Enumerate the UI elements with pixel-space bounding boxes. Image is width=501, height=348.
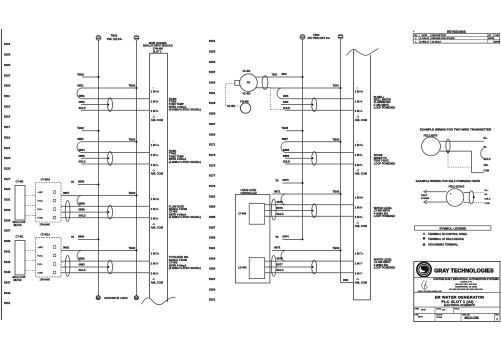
svg-text:COM: COM — [484, 170, 489, 172]
svg-text:3-FEB-07: 3-FEB-07 — [420, 42, 430, 44]
svg-text:0857: 0857 — [63, 191, 70, 195]
svg-text:8113: 8113 — [4, 104, 11, 108]
svg-text:DWN: DWN — [415, 308, 420, 310]
svg-text:0859: 0859 — [79, 208, 86, 212]
svg-text:TB03: TB03 — [281, 126, 288, 130]
svg-text:8159: 8159 — [209, 81, 216, 85]
svg-text:8013-C08: 8013-C08 — [465, 316, 479, 320]
svg-text:TB: TB — [275, 237, 278, 239]
svg-text:8195: 8195 — [209, 267, 216, 271]
svg-text:0877: 0877 — [277, 263, 284, 267]
svg-text:8119: 8119 — [4, 135, 11, 139]
svg-text:8153: 8153 — [209, 50, 216, 54]
svg-text:METER: METER — [14, 280, 22, 282]
svg-text:CT-451: CT-451 — [16, 235, 25, 238]
svg-text:TB: TB — [71, 237, 74, 239]
svg-text:EXAMPLE WIRING FOR TWO-WIRE TR: EXAMPLE WIRING FOR TWO-WIRE TRANSMITTER — [420, 128, 492, 132]
svg-text:8107: 8107 — [4, 73, 11, 77]
svg-text:8137: 8137 — [4, 229, 11, 233]
svg-text:MPW: MPW — [488, 38, 493, 40]
svg-text:0858: 0858 — [79, 202, 86, 206]
svg-text:8177: 8177 — [209, 174, 216, 178]
svg-text:8123: 8123 — [4, 156, 11, 160]
svg-text:8201: 8201 — [209, 298, 216, 302]
svg-text:8155: 8155 — [209, 60, 216, 64]
svg-text:0872: 0872 — [277, 200, 284, 204]
svg-text:8183: 8183 — [209, 205, 216, 209]
svg-text:0869: 0869 — [343, 280, 349, 282]
svg-text:8173: 8173 — [209, 153, 216, 157]
svg-text:TB02: TB02 — [77, 126, 84, 130]
svg-text:ELECTRICAL SCHEMATIC: ELECTRICAL SCHEMATIC — [444, 304, 475, 307]
svg-text:8175: 8175 — [209, 163, 216, 167]
svg-text:8163: 8163 — [209, 101, 216, 105]
svg-text:0851: 0851 — [77, 84, 84, 88]
svg-text:TB02: TB02 — [129, 84, 136, 88]
svg-text:8149: 8149 — [4, 291, 11, 295]
svg-text:8161: 8161 — [209, 91, 216, 95]
svg-text:+15V: +15V — [38, 247, 44, 249]
svg-text:8193: 8193 — [209, 256, 216, 260]
svg-text:IN -: IN - — [484, 147, 488, 149]
svg-text:CHK: CHK — [415, 315, 420, 317]
svg-text:8135: 8135 — [4, 218, 11, 222]
svg-text:IN -: IN - — [485, 194, 489, 196]
svg-text:NO: NO — [414, 35, 418, 37]
svg-text:8171: 8171 — [209, 143, 216, 147]
svg-text:8151: 8151 — [209, 39, 216, 43]
svg-text:0860: 0860 — [78, 234, 85, 238]
svg-text:0866: 0866 — [283, 101, 289, 104]
svg-text:8103: 8103 — [4, 53, 11, 57]
svg-text:0852: 0852 — [79, 100, 86, 104]
svg-text:8189: 8189 — [209, 236, 216, 240]
svg-text:0863: 0863 — [79, 263, 86, 267]
svg-text:8141: 8141 — [4, 249, 11, 253]
svg-text:0870: 0870 — [282, 178, 289, 182]
svg-text:COM: COM — [38, 273, 43, 275]
svg-text:0874: 0874 — [282, 234, 289, 238]
svg-text:TB02: TB02 — [111, 34, 118, 38]
svg-text:SHLD: SHLD — [485, 198, 491, 200]
svg-text:TB02: TB02 — [77, 72, 84, 76]
svg-text:CHK: CHK — [495, 35, 500, 37]
svg-text:FLO+: FLO+ — [38, 201, 44, 203]
svg-text:8157: 8157 — [209, 70, 216, 74]
svg-text:FLO+: FLO+ — [38, 256, 44, 258]
svg-text:+15V: +15V — [38, 192, 44, 194]
svg-text:PLC SLOT 1 (AI): PLC SLOT 1 (AI) — [441, 300, 474, 304]
svg-text:0855: 0855 — [79, 154, 86, 158]
svg-text:8101: 8101 — [4, 42, 11, 46]
svg-text:8185: 8185 — [209, 215, 216, 219]
svg-text:TB02: TB02 — [333, 246, 340, 250]
svg-text:MPW: MPW — [421, 310, 426, 312]
svg-text:8179: 8179 — [209, 184, 216, 188]
svg-text:8111: 8111 — [4, 94, 10, 98]
svg-text:8131: 8131 — [4, 198, 11, 202]
svg-text:TB02: TB02 — [129, 246, 136, 250]
svg-text:8165: 8165 — [209, 112, 216, 116]
svg-text:8147: 8147 — [4, 281, 11, 285]
svg-text:DESCRIPTION: DESCRIPTION — [432, 35, 447, 37]
svg-text:METER: METER — [14, 225, 22, 227]
svg-text:MAIN CHASSIS: MAIN CHASSIS — [149, 42, 167, 45]
svg-text:TB: TB — [71, 182, 74, 184]
svg-text:0868: 0868 — [283, 148, 290, 152]
svg-text:8143: 8143 — [4, 260, 11, 264]
svg-text:8125: 8125 — [4, 167, 11, 171]
svg-text:FIELD DEVICE: FIELD DEVICE — [449, 187, 465, 189]
svg-text:CT-451A: CT-451A — [41, 234, 51, 237]
svg-text:TB03: TB03 — [272, 75, 278, 77]
svg-text:-: - — [450, 199, 451, 202]
svg-text:0861: 0861 — [63, 246, 70, 250]
svg-text:TB: TB — [275, 180, 278, 182]
svg-text:CONTROLLER: CONTROLLER — [241, 193, 257, 195]
svg-text:0862: 0862 — [79, 257, 86, 261]
svg-text:8117: 8117 — [4, 125, 11, 129]
svg-text:8121: 8121 — [4, 146, 11, 150]
svg-text:8151: 8151 — [4, 301, 11, 305]
svg-text:8115: 8115 — [4, 115, 11, 119]
svg-text:TB03: TB03 — [333, 85, 340, 88]
svg-text:8169: 8169 — [209, 132, 216, 136]
svg-text:FLO-: FLO- — [38, 209, 43, 211]
svg-text:0854: 0854 — [79, 148, 86, 152]
svg-text:LIQUID LEVEL: LIQUID LEVEL — [241, 190, 258, 192]
svg-text:COM: COM — [485, 203, 490, 205]
svg-text:SYMBOL LEGEND: SYMBOL LEGEND — [439, 226, 467, 230]
svg-text:8181: 8181 — [209, 194, 216, 198]
svg-text:MPW: MPW — [494, 42, 499, 44]
svg-text:POWER: POWER — [421, 198, 430, 200]
svg-text:8109: 8109 — [4, 84, 11, 88]
svg-text:0851: 0851 — [79, 94, 86, 98]
svg-text:FIELD: FIELD — [421, 195, 428, 197]
svg-text:8145: 8145 — [4, 270, 11, 274]
svg-text:8167: 8167 — [209, 122, 216, 126]
svg-text:8197: 8197 — [209, 277, 216, 281]
svg-text:0853: 0853 — [77, 137, 84, 141]
svg-text:0876: 0876 — [277, 257, 284, 261]
svg-text:TB02: TB02 — [333, 137, 340, 141]
svg-text:0871: 0871 — [274, 189, 281, 193]
svg-text:IN +: IN + — [485, 190, 490, 192]
svg-text:PROJ: PROJ — [454, 308, 459, 310]
svg-text:GRAY TECHNOLOGIES: GRAY TECHNOLOGIES — [434, 268, 494, 274]
svg-text:IN +: IN + — [484, 138, 489, 140]
svg-text:8127: 8127 — [4, 177, 11, 181]
svg-text:CT-450A: CT-450A — [41, 179, 51, 182]
svg-text:8139: 8139 — [4, 239, 11, 243]
svg-text:MPW: MPW — [418, 317, 423, 319]
svg-text:0867: 0867 — [282, 137, 289, 141]
svg-text:EXAMPLE WIRING FOR SELF-POWERE: EXAMPLE WIRING FOR SELF-POWERED XMTR — [416, 179, 480, 183]
svg-text:FLO-: FLO- — [38, 264, 43, 266]
svg-text:8133: 8133 — [4, 208, 11, 212]
svg-text:TB02: TB02 — [333, 190, 340, 194]
svg-text:ER WATER GENERATOR: ER WATER GENERATOR — [435, 294, 484, 299]
svg-text:8105: 8105 — [4, 63, 11, 67]
svg-text:TB02: TB02 — [129, 137, 136, 141]
svg-text:0875: 0875 — [274, 246, 281, 250]
svg-text:0856: 0856 — [78, 180, 85, 184]
svg-text:8187: 8187 — [209, 225, 216, 229]
svg-text:0873: 0873 — [277, 206, 284, 210]
svg-text:8191: 8191 — [209, 246, 216, 250]
svg-text:8129: 8129 — [4, 187, 11, 191]
svg-text:CT-450: CT-450 — [16, 181, 25, 184]
svg-text:1746-NI8: 1746-NI8 — [153, 47, 164, 50]
svg-text:FIT: FIT — [247, 83, 251, 85]
svg-text:SLOT 1: SLOT 1 — [153, 50, 162, 53]
svg-text:TB02: TB02 — [129, 191, 136, 195]
svg-text:NONE: NONE — [437, 317, 443, 319]
svg-text:8199: 8199 — [209, 287, 216, 291]
svg-text:0865: 0865 — [283, 95, 289, 98]
svg-text:0869: 0869 — [283, 154, 290, 158]
svg-text:COM: COM — [38, 218, 43, 220]
